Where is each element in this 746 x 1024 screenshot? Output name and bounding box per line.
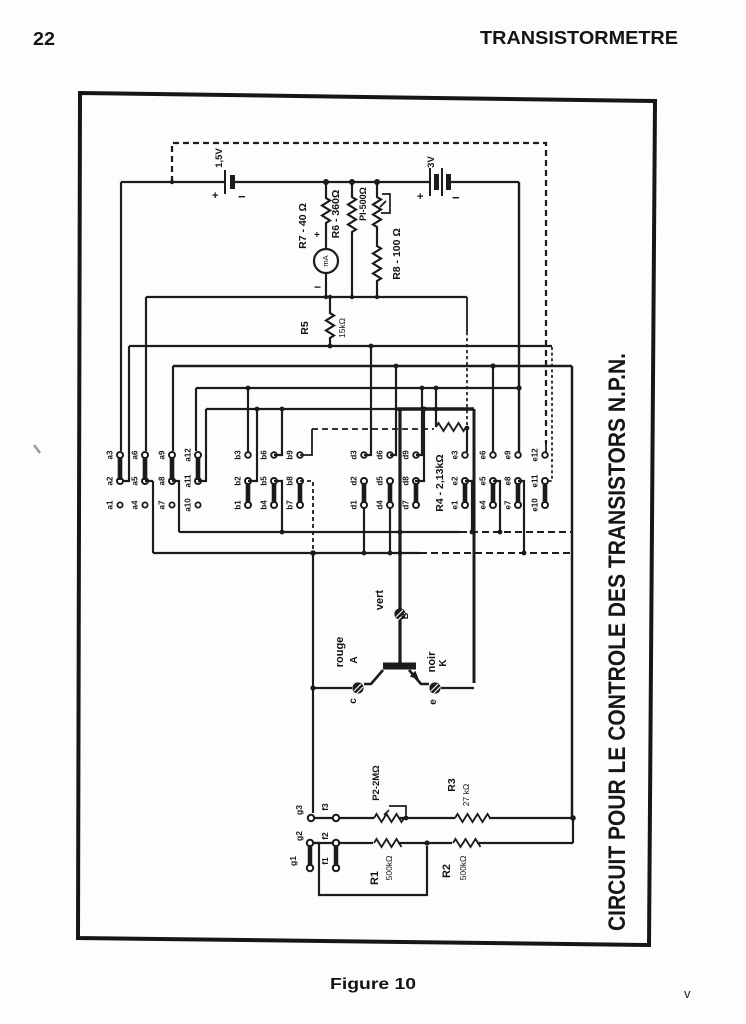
svg-text:CIRCUIT POUR LE CONTROLE DES T: CIRCUIT POUR LE CONTROLE DES TRANSISTORS… xyxy=(604,353,631,931)
svg-text:e11: e11 xyxy=(531,474,540,487)
svg-text:d8: d8 xyxy=(402,476,411,486)
svg-text:b3: b3 xyxy=(234,450,243,460)
svg-text:PI-500Ω: PI-500Ω xyxy=(358,187,368,221)
svg-text:e10: e10 xyxy=(531,498,540,512)
svg-text:500kΩ: 500kΩ xyxy=(384,856,394,881)
svg-text:g1: g1 xyxy=(288,856,298,866)
svg-text:b8: b8 xyxy=(286,476,295,486)
svg-text:e6: e6 xyxy=(479,450,488,459)
svg-text:1,5V: 1,5V xyxy=(214,148,225,168)
svg-text:e5: e5 xyxy=(479,476,488,485)
svg-text:R7 - 40 Ω: R7 - 40 Ω xyxy=(297,203,309,249)
svg-text:c: c xyxy=(348,698,359,704)
svg-text:−: − xyxy=(314,280,321,294)
svg-text:noir: noir xyxy=(426,651,438,672)
svg-text:Figure 10: Figure 10 xyxy=(330,976,416,993)
svg-text:e2: e2 xyxy=(451,476,460,485)
svg-text:a12: a12 xyxy=(184,448,193,462)
svg-text:TRANSISTORMETRE: TRANSISTORMETRE xyxy=(480,28,678,48)
svg-text:rouge: rouge xyxy=(334,637,346,668)
svg-text:R1: R1 xyxy=(369,871,381,885)
svg-text:f2: f2 xyxy=(320,832,330,840)
svg-text:e4: e4 xyxy=(479,500,488,509)
svg-text:R8 - 100 Ω: R8 - 100 Ω xyxy=(391,228,403,280)
svg-text:b4: b4 xyxy=(260,500,269,510)
svg-text:d1: d1 xyxy=(350,500,359,510)
svg-text:f1: f1 xyxy=(320,857,330,865)
svg-text:b6: b6 xyxy=(260,450,269,460)
svg-text:P2-2MΩ: P2-2MΩ xyxy=(371,765,382,801)
svg-text:a5: a5 xyxy=(131,476,140,485)
svg-text:b1: b1 xyxy=(234,500,243,510)
svg-text:e3: e3 xyxy=(451,450,460,459)
svg-text:15kΩ: 15kΩ xyxy=(337,318,347,338)
svg-text:a6: a6 xyxy=(131,450,140,459)
svg-text:500kΩ: 500kΩ xyxy=(458,856,468,881)
svg-text:vert: vert xyxy=(374,590,386,611)
svg-text:K: K xyxy=(438,659,449,667)
svg-text:−: − xyxy=(238,189,246,204)
svg-text:R4 - 2,13kΩ: R4 - 2,13kΩ xyxy=(434,454,446,511)
svg-text:e1: e1 xyxy=(451,500,460,509)
svg-text:v: v xyxy=(684,986,691,1001)
svg-text:d9: d9 xyxy=(402,450,411,460)
svg-text:27 kΩ: 27 kΩ xyxy=(461,784,471,806)
svg-text:B: B xyxy=(400,612,410,619)
svg-text:R5: R5 xyxy=(299,321,311,335)
svg-text:22: 22 xyxy=(33,29,55,49)
svg-text:R6 - 360Ω: R6 - 360Ω xyxy=(330,190,342,239)
svg-text:e8: e8 xyxy=(504,476,513,485)
svg-text:e: e xyxy=(428,699,439,705)
svg-text:d2: d2 xyxy=(350,476,359,486)
svg-text:b2: b2 xyxy=(234,476,243,486)
svg-text:a9: a9 xyxy=(158,450,167,459)
svg-text:b5: b5 xyxy=(260,476,269,486)
svg-text:a4: a4 xyxy=(131,500,140,509)
svg-text:a10: a10 xyxy=(184,498,193,512)
svg-text:a8: a8 xyxy=(158,476,167,485)
svg-text:d7: d7 xyxy=(402,500,411,510)
svg-text:e9: e9 xyxy=(504,450,513,459)
svg-text:a3: a3 xyxy=(106,450,115,459)
svg-text:−: − xyxy=(452,190,460,205)
svg-text:R2: R2 xyxy=(441,864,453,878)
svg-text:+: + xyxy=(212,190,218,202)
svg-text:e12: e12 xyxy=(531,448,540,462)
svg-text:b7: b7 xyxy=(286,500,295,510)
svg-text:a11: a11 xyxy=(184,474,193,487)
svg-text:3V: 3V xyxy=(426,156,437,168)
svg-text:d3: d3 xyxy=(350,450,359,460)
svg-text:d6: d6 xyxy=(376,450,385,460)
svg-text:g2: g2 xyxy=(294,831,304,841)
svg-text:b9: b9 xyxy=(286,450,295,460)
svg-text:+: + xyxy=(417,191,423,203)
svg-text:mA: mA xyxy=(321,255,330,266)
svg-text:A: A xyxy=(349,656,360,663)
svg-text:e7: e7 xyxy=(504,500,513,509)
svg-text:a1: a1 xyxy=(106,500,115,509)
svg-text:d5: d5 xyxy=(376,476,385,486)
svg-text:+: + xyxy=(314,230,320,241)
svg-text:f3: f3 xyxy=(320,803,330,811)
svg-text:a2: a2 xyxy=(106,476,115,485)
svg-text:a7: a7 xyxy=(158,500,167,509)
svg-text:R3: R3 xyxy=(446,778,458,792)
svg-text:g3: g3 xyxy=(294,805,304,815)
svg-text:d4: d4 xyxy=(376,500,385,510)
